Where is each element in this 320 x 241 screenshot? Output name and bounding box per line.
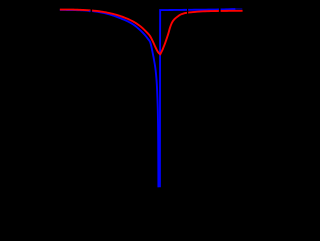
black tick mark overlay cutting both lines at x=187.5 (187, 0, 188, 14)
bottom plot border (black) clipping blue vertical (0, 188, 249, 236)
black tick mark overlay cutting red line at x=91 (91, 0, 93, 13)
right plot border (black) clipping line ends (243, 0, 249, 236)
red damped curve: V-notch with finite minimum and flat asymptotes (60, 10, 243, 55)
plot background (0, 0, 249, 236)
dimmed blue segment at right end (black axis tick overlapping blue asymptote) (235, 8, 242, 10)
blue dot peeking below red line end at tick gap (89, 11, 91, 13)
blue ideal curve: left branch plunging to minus infinity at resonance (60, 10, 159, 187)
blue ideal curve: right branch rising from minus infinity, corner, flat asymptote (160, 9, 236, 187)
chart: band-stop (notch) frequency response, ideal lossless curve (blue) vs damped curve (red), black background (0, 0, 249, 236)
left plot border (black) clipping line starts (0, 0, 60, 236)
black tick mark overlay cutting both lines at x=219.7 (219, 0, 221, 13)
